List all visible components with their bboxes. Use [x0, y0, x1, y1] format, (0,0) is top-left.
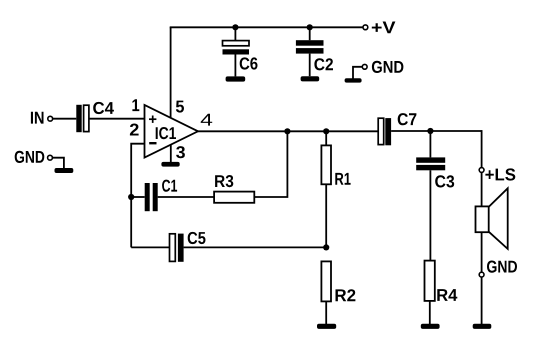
- wire: IN terminal to C4: [53, 118, 76, 120]
- capacitor C3: [416, 131, 445, 261]
- pin number 3: [176, 146, 185, 158]
- label C6: [240, 57, 258, 69]
- op-amp U1 (IC1) triangle: [145, 105, 199, 158]
- wire: pin 3 to ground: [170, 144, 172, 162]
- resistor R4: [425, 261, 435, 325]
- pin number 4: [201, 114, 213, 126]
- label R4: [437, 289, 457, 301]
- wire: C4 to op-amp pin 1: [89, 118, 145, 120]
- label IN: [31, 112, 44, 124]
- node: junction of rail and C6: [232, 24, 238, 30]
- label C2: [314, 58, 333, 70]
- node: junction C7 output and C3: [427, 128, 433, 134]
- wire: loudspeaker to GND terminal: [481, 232, 483, 272]
- wire: op-amp output pin 4 to C7: [198, 130, 379, 132]
- label IC1: [156, 127, 176, 139]
- label GND speaker: [487, 261, 517, 273]
- capacitor C5: [170, 234, 184, 262]
- capacitor C2: [296, 27, 324, 76]
- label C7: [398, 113, 417, 125]
- ground bar under pin 3: [161, 162, 179, 167]
- wire: output corner down to +LS terminal: [481, 130, 483, 167]
- wire: GND terminal down to ground: [481, 277, 483, 324]
- label C4: [93, 102, 114, 114]
- op-amp plus sign: [149, 116, 156, 123]
- ground symbol left input: [53, 158, 74, 173]
- capacitor C7: [378, 118, 391, 145]
- terminal +V: [363, 25, 368, 30]
- label C1: [162, 180, 177, 192]
- terminal IN: [48, 116, 53, 121]
- wire: R3 right end up to output node: [254, 131, 287, 197]
- label C5: [188, 232, 206, 244]
- label R2: [336, 289, 356, 301]
- loudspeaker LS: [476, 188, 508, 249]
- label +V: [372, 22, 396, 34]
- wire: pin5 vertical from +V rail down to op-amp top edge: [170, 27, 172, 118]
- wire: C1 to R3: [158, 196, 214, 198]
- ground symbol top-right: [345, 67, 363, 83]
- wire: C7 to loudspeaker corner: [391, 130, 482, 132]
- node: junction output and R3 branch: [284, 128, 290, 134]
- wire: junction to C1: [131, 196, 145, 198]
- terminal GND speaker: [479, 272, 484, 277]
- label GND top-right: [372, 61, 404, 73]
- wire: pin 2 left and down to feedback node: [131, 144, 144, 248]
- resistor R2: [321, 261, 331, 324]
- terminal GND left: [48, 155, 53, 160]
- wire: feedback node to C5: [131, 246, 169, 248]
- wire: C5 to R1/R2 junction: [184, 246, 327, 248]
- label +LS: [485, 168, 515, 180]
- resistor R1: [321, 131, 331, 247]
- ground bar under R2: [317, 324, 336, 329]
- node: junction pin2 line and C1: [128, 194, 134, 200]
- label R3: [215, 175, 233, 187]
- pin number 5: [176, 101, 184, 113]
- capacitor C1: [145, 183, 158, 211]
- capacitor C6: [223, 27, 250, 76]
- label GND left: [15, 151, 45, 163]
- pin number 2: [130, 124, 139, 136]
- resistor R3: [214, 192, 254, 203]
- node: junction of rail and C2: [307, 24, 313, 30]
- wire: +V supply rail: [170, 26, 363, 28]
- op-amp minus sign: [149, 142, 156, 144]
- capacitor C4: [76, 105, 89, 132]
- wire: +LS terminal to loudspeaker: [481, 173, 483, 207]
- ground bar under loudspeaker: [473, 324, 492, 329]
- ground bar under C6: [226, 76, 246, 81]
- terminal GND top-right: [362, 64, 367, 69]
- node: junction R1 R2 C5: [323, 244, 329, 250]
- terminal +LS: [479, 168, 484, 173]
- ground bar under R4: [421, 324, 440, 329]
- label C3: [435, 175, 454, 187]
- node: junction output and R1 branch: [323, 128, 329, 134]
- pin number 1: [132, 99, 139, 111]
- ground bar under C2: [301, 76, 320, 81]
- label R1: [335, 173, 350, 185]
